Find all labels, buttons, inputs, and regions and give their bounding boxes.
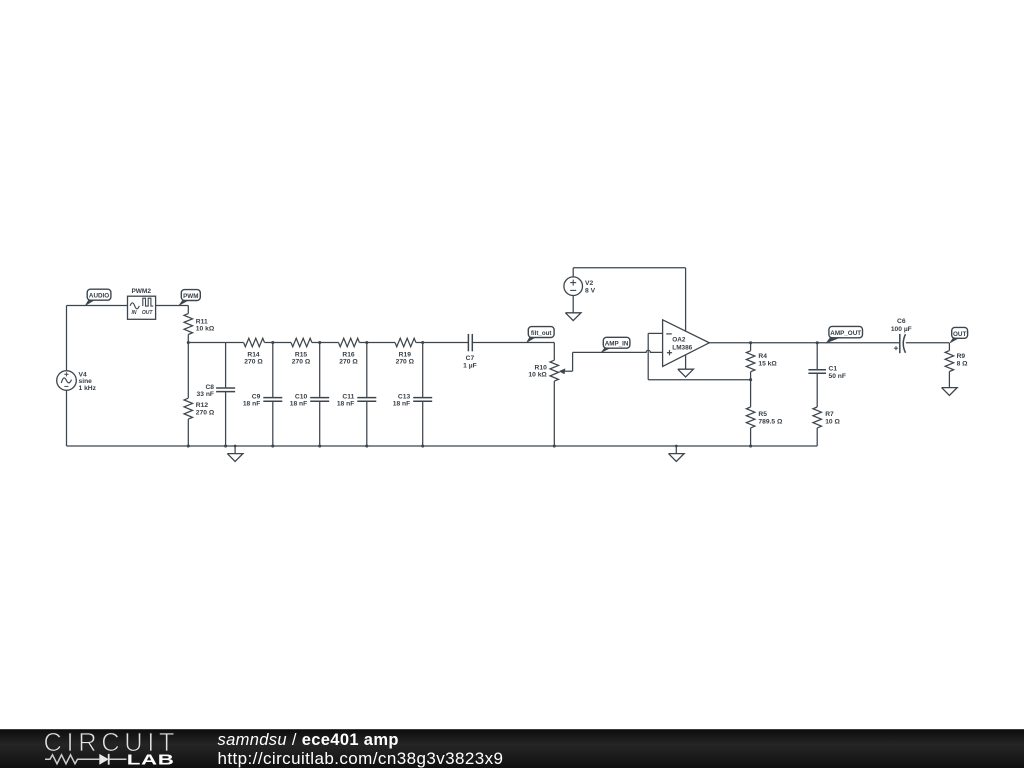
wire V4 bottom to ground rail xyxy=(66,391,68,446)
wire R11 to main rail node xyxy=(187,335,189,343)
voltage source V4 sine 1 kHz xyxy=(57,371,97,392)
source block PWM2 xyxy=(128,288,156,320)
flag AMP_IN xyxy=(600,337,630,353)
flag filt_out xyxy=(526,327,554,344)
node C8 bottom xyxy=(224,444,227,447)
capacitor C6 100 uF polarized xyxy=(891,318,912,353)
node R12 bottom xyxy=(187,444,190,447)
wire main rail segment 1 xyxy=(188,342,243,344)
wire rail R16-R19 xyxy=(359,342,395,344)
wire corner down to R11 xyxy=(187,306,189,314)
ground R9 xyxy=(942,388,958,396)
svg-text:10 kΩ: 10 kΩ xyxy=(196,326,215,333)
svg-text:270 Ω: 270 Ω xyxy=(339,359,358,366)
svg-text:18 nF: 18 nF xyxy=(243,401,260,408)
resistor R7 10 Ω xyxy=(813,407,841,446)
svg-text:AMP_IN: AMP_IN xyxy=(605,341,629,348)
wire power down to op-amp V+ pin xyxy=(685,268,687,332)
svg-text:R9: R9 xyxy=(957,353,966,360)
wire left vertical from V4 to top rail xyxy=(66,306,68,371)
svg-text:V2: V2 xyxy=(585,280,593,287)
capacitor C10 18 nF xyxy=(290,343,329,447)
capacitor C13 18 nF xyxy=(393,343,432,447)
node R4 top xyxy=(749,341,752,344)
svg-text:C1: C1 xyxy=(829,366,838,373)
node C10 top xyxy=(318,341,321,344)
flag OUT xyxy=(949,327,967,343)
svg-text:AUDIO: AUDIO xyxy=(89,293,109,300)
capacitor C8 33 nF xyxy=(197,343,236,447)
svg-text:270 Ω: 270 Ω xyxy=(244,359,263,366)
wire inverting input stub xyxy=(648,332,662,334)
node C10 bottom xyxy=(318,444,321,447)
svg-text:R14: R14 xyxy=(247,352,260,359)
node C9 top xyxy=(271,341,274,344)
op-amp OA2 LM386 xyxy=(663,320,710,367)
logo diode symbol xyxy=(99,754,108,765)
wire feedback vertical xyxy=(647,333,649,379)
svg-text:50 nF: 50 nF xyxy=(829,373,846,380)
wire rail R14-R15 xyxy=(265,342,292,344)
wire V2 bottom stub xyxy=(572,296,574,313)
svg-text:R15: R15 xyxy=(295,352,308,359)
wire V4 top to AUDIO/PWM2 input net xyxy=(67,305,128,307)
svg-text:270 Ω: 270 Ω xyxy=(292,359,311,366)
svg-text:R12: R12 xyxy=(196,402,209,409)
resistor R12 270 Ω xyxy=(184,343,215,447)
potentiometer R10 10 kΩ xyxy=(528,360,572,381)
svg-text:8 V: 8 V xyxy=(585,287,596,294)
wire C6 to OUT xyxy=(906,342,949,344)
svg-text:LM386: LM386 xyxy=(672,344,692,351)
svg-text:789.5 Ω: 789.5 Ω xyxy=(758,418,783,425)
resistor R11 10 kΩ xyxy=(184,314,215,335)
wire op-amp ground pin xyxy=(685,355,687,369)
svg-text:AMP_OUT: AMP_OUT xyxy=(830,330,861,337)
wire PWM2 output to corner xyxy=(156,305,189,307)
svg-text:18 nF: 18 nF xyxy=(290,401,307,408)
wire feedback horizontal to R4/R5 node xyxy=(648,379,750,381)
wire rail R19 to C7 xyxy=(416,342,469,344)
capacitor C1 50 nF xyxy=(808,343,846,407)
wire R10 bottom to ground rail xyxy=(553,381,555,446)
flag AMP_OUT xyxy=(825,326,862,343)
svg-text:C6: C6 xyxy=(897,318,906,325)
svg-text:10 kΩ: 10 kΩ xyxy=(528,372,547,379)
svg-text:OA2: OA2 xyxy=(672,337,686,344)
svg-text:R5: R5 xyxy=(758,411,767,418)
node feedback R4/R5 junction xyxy=(749,378,752,381)
svg-text:10 Ω: 10 Ω xyxy=(825,418,840,425)
wire C7 to R10 corner xyxy=(472,342,554,344)
resistor R14 270 Ω xyxy=(244,338,265,365)
wire bottom ground rail xyxy=(67,445,818,447)
resistor R4 15 kΩ xyxy=(746,343,777,380)
svg-text:R10: R10 xyxy=(535,364,548,371)
node C11 top xyxy=(365,341,368,344)
svg-text:100 µF: 100 µF xyxy=(891,326,912,333)
wire op-amp output rail xyxy=(709,342,900,344)
svg-text:8 Ω: 8 Ω xyxy=(957,360,969,367)
svg-text:C10: C10 xyxy=(295,393,308,400)
svg-text:270 Ω: 270 Ω xyxy=(396,359,415,366)
svg-text:C8: C8 xyxy=(205,384,214,391)
wire R10 wiper up xyxy=(572,352,574,371)
resistor R5 789.5 Ω xyxy=(746,380,783,446)
resistor R9 8 Ω xyxy=(945,343,968,388)
logo resistor zigzag xyxy=(45,755,99,764)
svg-text:IN: IN xyxy=(132,310,137,316)
capacitor C7 1 uF xyxy=(463,334,477,369)
svg-text:http://circuitlab.com/cn38g3v3: http://circuitlab.com/cn38g3v3823x9 xyxy=(218,749,504,768)
svg-text:R11: R11 xyxy=(196,319,208,326)
svg-text:filt_out: filt_out xyxy=(531,330,552,337)
svg-text:18 nF: 18 nF xyxy=(337,401,354,408)
voltage source V2 8 V xyxy=(564,277,596,296)
wire power rail to op-amp xyxy=(573,267,685,269)
node C13 top xyxy=(421,341,424,344)
svg-text:33 nF: 33 nF xyxy=(197,391,214,398)
node R11/R12 junction xyxy=(187,341,190,344)
svg-text:C11: C11 xyxy=(342,393,354,400)
resistor R16 270 Ω xyxy=(339,338,360,365)
flag PWM xyxy=(178,290,200,307)
resistor R19 270 Ω xyxy=(395,338,416,365)
node C9 bottom xyxy=(271,444,274,447)
wire rail R15-R16 xyxy=(312,342,339,344)
capacitor C9 18 nF xyxy=(243,343,282,447)
flag AUDIO xyxy=(85,289,111,306)
svg-text:C7: C7 xyxy=(466,355,475,362)
svg-text:15 kΩ: 15 kΩ xyxy=(758,360,777,367)
wire V2 top to power rail xyxy=(572,268,574,277)
wire corner down to R10 xyxy=(553,343,555,361)
resistor R15 270 Ω xyxy=(291,338,312,365)
ground op-amp xyxy=(678,369,694,377)
svg-text:samndsu / ece401 amp: samndsu / ece401 amp xyxy=(218,731,399,749)
svg-text:OUT: OUT xyxy=(953,331,966,338)
capacitor C11 18 nF xyxy=(337,343,376,447)
ground V2 xyxy=(565,313,581,321)
svg-text:LAB: LAB xyxy=(127,752,175,768)
svg-text:R16: R16 xyxy=(342,352,355,359)
node C11 bottom xyxy=(365,444,368,447)
svg-text:PWM2: PWM2 xyxy=(131,288,151,295)
svg-text:1 µF: 1 µF xyxy=(463,362,477,369)
svg-text:PWM: PWM xyxy=(183,293,198,300)
svg-text:C9: C9 xyxy=(252,393,261,400)
svg-text:C13: C13 xyxy=(398,393,411,400)
ground bottom rail right xyxy=(669,445,685,462)
node C13 bottom xyxy=(421,444,424,447)
wire wiper to op-amp + input with hop xyxy=(573,350,663,352)
node R5 bottom xyxy=(749,444,752,447)
svg-text:R4: R4 xyxy=(758,353,767,360)
ground bottom rail left xyxy=(227,445,243,462)
svg-text:1 kHz: 1 kHz xyxy=(79,385,97,392)
svg-text:R19: R19 xyxy=(399,352,412,359)
svg-text:18 nF: 18 nF xyxy=(393,401,410,408)
svg-text:270 Ω: 270 Ω xyxy=(196,409,215,416)
svg-text:R7: R7 xyxy=(825,411,834,418)
svg-text:OUT: OUT xyxy=(142,310,154,316)
node R10 bottom xyxy=(553,444,556,447)
node C1 top xyxy=(816,341,819,344)
